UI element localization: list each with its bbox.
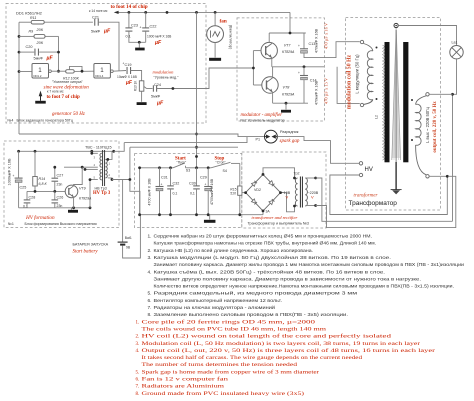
svg-text:0,1: 0,1 bbox=[173, 192, 178, 196]
svg-text:C25: C25 bbox=[20, 186, 27, 190]
wire feedback column bbox=[57, 36, 60, 72]
wire Tr3 secondary bottom bbox=[108, 178, 114, 181]
svg-text:5мкФ: 5мкФ bbox=[34, 57, 43, 61]
label to foot 14 of chip bbox=[89, 4, 148, 13]
wire VT7 collector bbox=[268, 33, 270, 43]
svg-text:+: + bbox=[298, 71, 300, 75]
modulation coil terminal bottom bbox=[360, 103, 363, 106]
label C29 value rotated bbox=[210, 178, 214, 205]
svg-text:Fan is 12 v computer fan: Fan is 12 v computer fan bbox=[142, 378, 229, 383]
svg-text:Количество витков определяет н: Количество витков определяет нужное напр… bbox=[154, 284, 455, 290]
resistor R14 bbox=[33, 151, 48, 186]
svg-text:Катушка модуляции (L модул. 50: Катушка модуляции (L модул. 50 Гц) двухс… bbox=[154, 254, 392, 261]
svg-text:C26: C26 bbox=[57, 196, 64, 200]
wire C26 bottom bbox=[54, 203, 56, 208]
svg-text:+: + bbox=[123, 62, 125, 66]
svg-text:R11: R11 bbox=[30, 16, 36, 20]
label HV formation bbox=[25, 214, 55, 221]
wire +12V supply bus bbox=[114, 11, 290, 14]
label modulator amplifier bbox=[241, 113, 283, 118]
svg-text:КТ829А: КТ829А bbox=[282, 50, 295, 54]
wire gate1 out bbox=[51, 70, 65, 72]
svg-text:L вых ~ 220В 50Гц: L вых ~ 220В 50Гц bbox=[425, 107, 430, 143]
wire emitter rail HV bbox=[19, 206, 92, 209]
wire lamp loop to Tr2 secondary top bbox=[316, 178, 453, 221]
capacitor C28 bbox=[23, 191, 35, 208]
svg-text:Разрядник: Разрядник bbox=[280, 130, 299, 134]
wire VT7 emitter to midrail bbox=[271, 58, 273, 67]
wire supply into modulator bbox=[289, 12, 291, 33]
svg-text:8.: 8. bbox=[148, 312, 152, 318]
wire VT9 collector bbox=[74, 167, 83, 186]
svg-text:ТВС - 110ПЦ15: ТВС - 110ПЦ15 bbox=[85, 145, 112, 149]
potentiometer R13 bbox=[133, 81, 146, 92]
wire supply drop to start block bbox=[196, 12, 198, 167]
label spark gap bbox=[280, 139, 300, 144]
svg-text:V: V bbox=[286, 195, 289, 200]
block transformer-rectifier (No.3) dashed box bbox=[242, 152, 326, 228]
label battery bbox=[73, 243, 109, 247]
label block No.4 bbox=[8, 119, 73, 123]
svg-text:1.: 1. bbox=[148, 234, 152, 240]
node top bus junctions bbox=[138, 166, 209, 169]
wire Tr3 term2 stub bbox=[84, 168, 98, 171]
svg-text:+: + bbox=[140, 26, 142, 30]
svg-text:"Уровень мод.": "Уровень мод." bbox=[154, 75, 180, 79]
wire bridge minus out bbox=[262, 210, 265, 215]
node HV bus junctions bbox=[17, 150, 115, 153]
label block No.2 bbox=[241, 118, 285, 122]
svg-text:R13 1К: R13 1К bbox=[133, 81, 137, 92]
wire R9 bbox=[19, 35, 59, 37]
label output coil rotated bbox=[425, 107, 430, 143]
svg-text:Катушка съёма (L вых. 220В 50Г: Катушка съёма (L вых. 220В 50Гц) - трёхс… bbox=[154, 268, 386, 275]
label C13 value red rotated bbox=[323, 22, 328, 49]
svg-text:2.: 2. bbox=[148, 248, 152, 254]
svg-text:КТ829А: КТ829А bbox=[282, 92, 295, 96]
svg-text:Радиаторы на ключах модулятора: Радиаторы на ключах модулятора - алюмини… bbox=[154, 304, 276, 311]
svg-text:3А: 3А bbox=[266, 210, 271, 214]
output coil terminal top bbox=[426, 93, 429, 96]
node supply drop at box entry bbox=[195, 155, 198, 158]
HV output lead funnel bbox=[392, 27, 401, 162]
capacitor C20 bbox=[26, 45, 54, 62]
capacitor C29 bbox=[200, 168, 212, 191]
switch S4 stop bbox=[211, 162, 240, 168]
wire C13 bottom to coil top bbox=[304, 42, 360, 58]
wire bridge AC right bbox=[279, 191, 294, 212]
annotation arrow pin7 ground bbox=[39, 91, 43, 101]
svg-text:C27: C27 bbox=[57, 174, 64, 178]
svg-text:0,1: 0,1 bbox=[190, 192, 195, 196]
label C31 value rotated bbox=[148, 178, 152, 206]
label fan bbox=[220, 19, 227, 25]
label VT7 bbox=[282, 44, 295, 54]
capacitor C25 bbox=[13, 151, 27, 189]
svg-text:470 µF x 16 V: 470 µF x 16 V bbox=[323, 22, 328, 49]
svg-text:20К: 20К bbox=[36, 28, 44, 32]
capacitor C13 bbox=[298, 33, 315, 53]
svg-text:C24: C24 bbox=[154, 83, 161, 87]
svg-text:The coils wound on PVC tube ID: The coils wound on PVC tube ID 46 mm, le… bbox=[142, 327, 327, 332]
wire bridge AC top bbox=[262, 168, 295, 178]
svg-text:VD2: VD2 bbox=[254, 188, 261, 192]
node supply drop battery feed bbox=[195, 146, 198, 149]
svg-text:3.: 3. bbox=[148, 255, 152, 261]
wire C22 bottom to ground bbox=[138, 31, 146, 47]
wire R11 feedback top bbox=[19, 21, 93, 23]
svg-text:µF: µF bbox=[156, 101, 164, 107]
svg-text:4.: 4. bbox=[136, 349, 140, 354]
svg-text:+: + bbox=[13, 174, 15, 178]
wire output coil top to lamp node bbox=[430, 93, 453, 95]
svg-text:generator 50 Hz: generator 50 Hz bbox=[52, 112, 85, 117]
wire C21 to C19 node bbox=[98, 22, 119, 70]
svg-text:к 7 ноге мс: к 7 ноге мс bbox=[47, 90, 64, 94]
svg-text:"Стоп": "Стоп" bbox=[216, 161, 227, 165]
wire oscillator to spark gap bbox=[19, 134, 264, 137]
wire battery plus lead bbox=[122, 180, 124, 242]
block HV formation (No.1) dashed box bbox=[4, 141, 119, 228]
transistor VT7 bbox=[261, 42, 277, 58]
svg-text:Core pile of 20 ferrite rings: Core pile of 20 ferrite rings OD 45 mm, … bbox=[142, 320, 316, 325]
block generator 50 Hz (No.4) dashed box bbox=[6, 4, 206, 124]
wire battery node exit bbox=[112, 147, 130, 179]
svg-text:№1: №1 bbox=[8, 222, 14, 226]
wire HV bus exit bbox=[114, 143, 125, 152]
resistor R9 bbox=[29, 30, 46, 46]
svg-text:HV: HV bbox=[365, 167, 373, 173]
wire fan top bbox=[214, 12, 216, 25]
capacitor C32 bbox=[167, 168, 179, 196]
wire wiper to C24 bbox=[147, 88, 153, 90]
svg-text:C30: C30 bbox=[189, 182, 196, 186]
svg-text:C31: C31 bbox=[161, 176, 168, 180]
wire battery node to bottom bus bbox=[129, 178, 140, 215]
svg-text:DD1.2: DD1.2 bbox=[34, 74, 42, 78]
modulation coil terminal top bbox=[360, 40, 363, 43]
label output coil red rotated bbox=[433, 101, 438, 153]
ground start-stop block bbox=[204, 215, 216, 223]
label block No.3 bbox=[248, 222, 309, 226]
wire C14 bottom bbox=[303, 80, 305, 103]
svg-text:V: V bbox=[311, 195, 314, 200]
svg-text:0.1: 0.1 bbox=[126, 35, 131, 39]
wire battery minus loop bbox=[123, 215, 141, 258]
wire left rail bbox=[18, 22, 20, 134]
svg-text:3.: 3. bbox=[136, 342, 140, 347]
svg-text:510: 510 bbox=[230, 192, 236, 196]
ground modulator bbox=[281, 103, 291, 112]
label VT9 bbox=[79, 187, 92, 201]
svg-text:Занимает половину каркаса. Ди: Занимает половину каркаса. Диаметр жилы … bbox=[154, 262, 465, 268]
svg-text:10мкФ X 16В: 10мкФ X 16В bbox=[117, 75, 138, 79]
svg-text:C21: C21 bbox=[92, 16, 99, 20]
label stop bbox=[215, 156, 227, 173]
wire spark gap to HV coil bbox=[277, 137, 359, 164]
label start bbox=[175, 156, 190, 172]
wire base bar bbox=[252, 51, 255, 85]
wire S4 to R15 bbox=[239, 163, 241, 186]
svg-text:НВ Тр3: НВ Тр3 bbox=[95, 186, 107, 190]
spark gap P1 bbox=[265, 130, 278, 143]
wire C23 bottom bbox=[129, 31, 146, 42]
label generator 50 Hz bbox=[52, 112, 85, 117]
svg-text:Трансформатор: Трансформатор bbox=[349, 200, 398, 207]
label P1 bbox=[256, 137, 261, 141]
label C25 value rotated bbox=[8, 158, 12, 185]
svg-text:Р1: Р1 bbox=[256, 137, 261, 141]
label transformer black bbox=[349, 200, 398, 207]
wire HV supply bus bbox=[19, 150, 114, 152]
svg-text:transformer: transformer bbox=[354, 193, 378, 198]
wire R12 out bbox=[74, 70, 94, 73]
wire collector rail bbox=[269, 32, 306, 35]
pin numbers Tr3 bbox=[94, 155, 111, 179]
wire VT8 collector to midrail bbox=[272, 67, 274, 78]
capacitor C30 bbox=[189, 168, 200, 196]
svg-text:2.: 2. bbox=[136, 335, 140, 340]
label modulation coil rotated bbox=[355, 54, 360, 94]
ground fan bbox=[209, 58, 221, 61]
HV coil terminal upper bbox=[359, 162, 362, 165]
svg-text:7.: 7. bbox=[136, 385, 140, 390]
wire Tr3 term1 to bus bbox=[90, 151, 97, 154]
svg-text:1000мкФ X 16В: 1000мкФ X 16В bbox=[8, 158, 12, 185]
wire C20 bbox=[19, 51, 59, 53]
label start battery bbox=[73, 250, 99, 255]
svg-text:23n: 23n bbox=[57, 183, 63, 187]
svg-text:"Усиление синуса": "Усиление синуса" bbox=[52, 80, 84, 84]
svg-text:6.: 6. bbox=[148, 298, 152, 304]
svg-text:№2 Усилитель модулятор: №2 Усилитель модулятор bbox=[241, 118, 285, 122]
label HV Tr3 bbox=[93, 186, 111, 196]
wire C31 bottom bbox=[159, 191, 161, 215]
node left rail junctions bbox=[18, 35, 21, 73]
notes list black (assembly notes in Russian) bbox=[148, 234, 465, 319]
label bridge fuse 3A bbox=[266, 210, 271, 214]
svg-text:to foot 14 of chip: to foot 14 of chip bbox=[111, 4, 148, 10]
HV primary winding zigzag bbox=[383, 45, 385, 160]
label DD1 K561LN2 bbox=[16, 11, 43, 16]
label TVS transformer bbox=[85, 145, 112, 149]
svg-text:modulation coil 50 Hz: modulation coil 50 Hz bbox=[347, 54, 353, 109]
node Tr2 primary terminals bbox=[293, 177, 296, 208]
HV coil terminal lower bbox=[359, 173, 362, 176]
svg-text:470мкФ X 16В: 470мкФ X 16В bbox=[315, 28, 319, 53]
svg-text:Катушка НВ (L2) по всей длине: Катушка НВ (L2) по всей длине сердечника… bbox=[154, 247, 314, 254]
svg-text:470мкФ X 16В: 470мкФ X 16В bbox=[315, 80, 319, 105]
svg-text:HV coil (L2) wound on total le: HV coil (L2) wound on total length of th… bbox=[142, 335, 392, 340]
svg-text:Сердечник набран из 20 штук фе: Сердечник набран из 20 штук ферромагнитн… bbox=[154, 234, 373, 240]
wire R15 bottom bbox=[239, 195, 241, 214]
svg-text:1: 1 bbox=[38, 67, 42, 74]
notes list red (English translation) bbox=[136, 320, 436, 397]
resistor R12 trimmer bbox=[63, 66, 82, 80]
svg-text:7.: 7. bbox=[148, 305, 152, 311]
svg-text:9В: 9В bbox=[126, 246, 131, 250]
label C14 value rotated bbox=[315, 80, 319, 105]
svg-text:№4: №4 bbox=[8, 119, 14, 123]
transistor VT9 bbox=[65, 185, 78, 198]
wire HV terminal to lamp bbox=[398, 26, 456, 46]
svg-text:8.: 8. bbox=[136, 392, 140, 397]
wire lamp to output coil bbox=[451, 59, 456, 221]
svg-text:Блок задающего генератора 50Гц: Блок задающего генератора 50Гц bbox=[17, 119, 73, 123]
wire C29 bottom bbox=[207, 191, 209, 215]
svg-text:output coil, 220 v, 50 Hz: output coil, 220 v, 50 Hz bbox=[433, 101, 438, 153]
wire Tr2 secondary bottom stub bbox=[306, 204, 317, 207]
svg-text:DD1 К561ЛН2: DD1 К561ЛН2 bbox=[16, 11, 43, 16]
svg-text:VT7: VT7 bbox=[284, 44, 292, 48]
block transformer dashed box bbox=[346, 18, 441, 211]
svg-text:µF: µF bbox=[103, 29, 111, 35]
wire R13 to ground bbox=[141, 91, 143, 102]
inverter DD1.4 bbox=[94, 64, 113, 79]
svg-text:Ground made from PVC insulated: Ground made from PVC insulated heavy wir… bbox=[142, 392, 305, 397]
svg-text:6,8 К: 6,8 К bbox=[39, 182, 48, 186]
svg-text:Трансформатор и выпрямитель №: Трансформатор и выпрямитель №3 bbox=[248, 222, 309, 226]
transistor VT8 bbox=[262, 77, 278, 93]
svg-text:4700 мкФ X 16В: 4700 мкФ X 16В bbox=[148, 178, 152, 206]
transformer core right bar bbox=[403, 42, 408, 162]
svg-text:+: + bbox=[205, 183, 207, 187]
label transformer and rectifier bbox=[252, 215, 298, 220]
svg-text:5мкФ: 5мкФ bbox=[151, 95, 160, 99]
block modulator-amplifier (No.2) dashed box bbox=[237, 18, 324, 121]
label L2 bbox=[375, 115, 379, 119]
output coil terminal bottom bbox=[426, 175, 429, 178]
wire HV center lead bbox=[395, 162, 397, 190]
svg-text:Занимает другую половину карка: Занимает другую половину каркаса. Диамет… bbox=[154, 276, 422, 282]
svg-text:HV Тр 3: HV Тр 3 bbox=[93, 191, 111, 196]
svg-text:Bat1: Bat1 bbox=[125, 236, 132, 240]
wire modulation signal to amplifier bbox=[157, 68, 254, 90]
svg-text:4700мкФ X 16В: 4700мкФ X 16В bbox=[210, 178, 214, 205]
label C13 value rotated bbox=[315, 28, 319, 53]
wire left rail start-stop block bbox=[139, 168, 141, 215]
wire bridge plus out bbox=[242, 191, 247, 194]
svg-text:C23: C23 bbox=[131, 24, 138, 28]
label 10V bbox=[282, 191, 291, 200]
node supply drop at spark wire bbox=[195, 133, 198, 136]
wire top bus mid bbox=[186, 167, 212, 169]
svg-text:HV formation: HV formation bbox=[25, 214, 55, 221]
wire output coil bottom loop bbox=[330, 175, 449, 215]
svg-text:Катушки трансформатора намотан: Катушки трансформатора намотаны на отрез… bbox=[154, 240, 377, 247]
wire Tr2 secondary top stub bbox=[306, 177, 317, 180]
ground pin7 bbox=[35, 101, 46, 104]
svg-text:µF: µF bbox=[154, 40, 162, 46]
svg-text:VT9: VT9 bbox=[79, 187, 86, 191]
svg-text:to foot 7 of chip: to foot 7 of chip bbox=[47, 95, 81, 100]
svg-text:Разрядник самодельный, из медн: Разрядник самодельный, из медного провод… bbox=[154, 290, 358, 297]
fan motor symbol bbox=[207, 26, 224, 43]
label block No.1 bbox=[8, 222, 97, 226]
svg-text:The number of turns determines: The number of turns determines the tensi… bbox=[142, 363, 298, 368]
wire VT8 base bbox=[253, 84, 261, 86]
svg-text:+: + bbox=[298, 44, 300, 48]
label 220V bbox=[308, 191, 319, 200]
capacitor C23 bbox=[125, 12, 138, 38]
svg-text:µF: µF bbox=[125, 80, 133, 86]
lamp La1 bbox=[450, 46, 463, 59]
label Tr2 bbox=[294, 172, 300, 176]
wire base line bbox=[27, 190, 65, 193]
node output coil taps bbox=[411, 99, 413, 141]
svg-text:к 14 ноге мс: к 14 ноге мс bbox=[89, 9, 108, 13]
capacitor C22 bbox=[140, 12, 173, 46]
svg-text:C28: C28 bbox=[29, 196, 36, 200]
transformer core left bar bbox=[385, 42, 390, 162]
wire Tr3 secondary top bbox=[106, 151, 112, 161]
svg-text:Radiators are Aluminium: Radiators are Aluminium bbox=[142, 385, 225, 390]
wire C25 bottom bbox=[18, 182, 20, 207]
svg-text:modulation: modulation bbox=[153, 69, 175, 74]
ground C22 C23 bbox=[135, 48, 145, 51]
wire VT8 emitter bbox=[272, 92, 274, 103]
svg-text:modulator - amplifier: modulator - amplifier bbox=[241, 113, 283, 118]
capacitor C19 bbox=[117, 62, 138, 87]
wire emitter rail bbox=[273, 102, 308, 105]
switch S3 start bbox=[173, 163, 186, 168]
HV terminal top bbox=[394, 23, 398, 27]
wire Tr2 secondary bottom loop bbox=[316, 176, 456, 227]
label transformer red bbox=[354, 193, 378, 198]
svg-text:Modulation coil (L, 50 Hz modu: Modulation coil (L, 50 Hz modulation) is… bbox=[142, 342, 421, 347]
svg-text:VT8: VT8 bbox=[283, 86, 291, 90]
label C14 value red rotated bbox=[323, 77, 328, 104]
wire VT9 emitter to ground bbox=[73, 197, 75, 208]
svg-text:20К: 20К bbox=[36, 41, 44, 45]
inverter DD1.2 bbox=[32, 64, 51, 79]
svg-text:C20: C20 bbox=[26, 45, 33, 49]
svg-text:1000 мкФ X 16В: 1000 мкФ X 16В bbox=[147, 35, 172, 39]
modulation coil winding bbox=[364, 44, 373, 105]
svg-text:Start battery: Start battery bbox=[73, 250, 99, 255]
svg-text:µF: µF bbox=[46, 56, 54, 62]
wire fan bottom bbox=[214, 43, 216, 58]
svg-text:Spark gap is home made from co: Spark gap is home made from copper wire … bbox=[142, 370, 320, 375]
earth ground transformer bbox=[391, 190, 402, 195]
svg-text:spark gap: spark gap bbox=[280, 139, 300, 144]
wire gate2 out bbox=[113, 70, 126, 73]
svg-text:БАТАРЕЯ ЗАПУСКА: БАТАРЕЯ ЗАПУСКА bbox=[73, 243, 109, 247]
label modulation bbox=[153, 69, 180, 79]
svg-text:C19: C19 bbox=[125, 63, 132, 67]
wire Tr3 term4 feedback return bbox=[89, 178, 98, 208]
node modulation coil taps bbox=[376, 47, 378, 101]
svg-text:S4: S4 bbox=[223, 169, 227, 173]
wire R14 bottom bbox=[34, 186, 36, 191]
svg-text:fan: fan bbox=[220, 19, 227, 25]
capacitor C26 bbox=[52, 191, 64, 208]
wire C19 to R13 bbox=[131, 71, 142, 81]
wire top bus left bbox=[140, 167, 173, 169]
resistor R15 bbox=[230, 186, 242, 196]
label modulation coil red rotated bbox=[347, 54, 353, 109]
label ventilator rotated bbox=[229, 25, 234, 50]
wire HV box feed line bbox=[124, 137, 247, 143]
capacitor C27 bbox=[52, 166, 64, 187]
capacitor C24 bbox=[151, 83, 164, 107]
transformer Tr2 bbox=[295, 177, 307, 208]
transformer Tr3 windings bbox=[100, 150, 107, 186]
svg-text:5мкФ: 5мкФ bbox=[91, 30, 100, 34]
svg-text:1: 1 bbox=[100, 67, 104, 74]
label sine wave deformation bbox=[44, 80, 90, 90]
svg-text:S3: S3 bbox=[186, 168, 190, 172]
